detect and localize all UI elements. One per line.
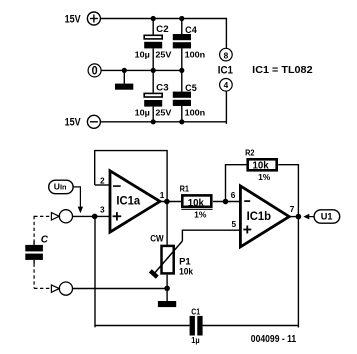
svg-text:15V: 15V	[65, 13, 82, 25]
wire pin 4 to -15V rail	[225, 91, 227, 124]
svg-text:10k: 10k	[179, 267, 194, 278]
wire +15V rail	[100, 18, 226, 20]
svg-text:3: 3	[100, 205, 105, 215]
svg-text:1%: 1%	[194, 210, 207, 220]
svg-text:6: 6	[231, 190, 236, 200]
svg-text:C2: C2	[156, 24, 169, 34]
junction 0/C4C5	[179, 68, 184, 73]
feedback wire IC1a output to pin 2	[95, 151, 167, 202]
terminal 0	[88, 64, 101, 78]
test terminal upper	[59, 210, 72, 223]
wire -15V rail	[100, 121, 226, 123]
test terminal lower	[59, 282, 72, 295]
ground (top)	[115, 70, 133, 89]
resistor R2 10k 1% with wires	[226, 149, 299, 215]
svg-text:U1: U1	[321, 211, 333, 221]
wire down to pin 8	[225, 18, 227, 49]
wire lower terminal to P1 junction	[73, 288, 168, 290]
capacitor C5 (100n)	[173, 70, 205, 121]
output label U1	[314, 210, 340, 223]
bottom rail right of C1	[203, 325, 299, 327]
wire P1 bottom to junction	[166, 275, 168, 289]
wire IC1a output down to P1	[166, 202, 168, 245]
junction -15V/C3	[151, 119, 156, 124]
potentiometer P1 10k	[150, 234, 193, 278]
junction pin 7	[296, 214, 302, 220]
svg-text:10k: 10k	[253, 161, 269, 172]
ground (bottom)	[158, 288, 176, 307]
junction +15V/C4	[179, 16, 184, 21]
svg-text:IC1 = TL082: IC1 = TL082	[252, 65, 313, 76]
wire pin7 down to bottom rail	[297, 217, 299, 328]
junction -15V/C5	[179, 119, 184, 124]
junction pin3 node	[92, 214, 98, 220]
arrow to U1	[303, 214, 309, 220]
op-amp IC1b	[231, 186, 295, 247]
svg-text:10µ: 10µ	[135, 49, 150, 59]
input label UIn	[49, 180, 73, 194]
svg-text:8: 8	[224, 51, 229, 61]
wire pin3 node down to bottom rail	[94, 216, 96, 327]
pin 4 of IC1	[220, 79, 233, 92]
junction 0/C2C3	[151, 68, 156, 73]
svg-text:15V: 15V	[65, 117, 82, 129]
capacitor C2 (10u 25V electrolytic)	[135, 19, 172, 71]
arrow down onto pin3 wire	[78, 207, 83, 214]
svg-text:IC1a: IC1a	[116, 194, 140, 208]
svg-text:10k: 10k	[188, 198, 204, 209]
svg-text:1µ: 1µ	[191, 335, 199, 345]
svg-text:C1: C1	[191, 308, 200, 317]
svg-text:4: 4	[224, 80, 229, 90]
svg-text:IC1: IC1	[218, 64, 233, 76]
junction pin 6 / R2	[223, 199, 229, 205]
terminal -15V	[65, 115, 101, 128]
resistor R1 10k 1%	[180, 185, 213, 220]
wire IC1a output to R1	[160, 201, 182, 203]
bottom rail left of C1	[95, 325, 190, 327]
svg-text:5: 5	[231, 219, 236, 229]
wire 0 rail	[101, 69, 182, 71]
wire pin 7 output	[289, 216, 298, 218]
terminal +15V	[65, 12, 101, 25]
svg-text:25V: 25V	[155, 107, 171, 117]
svg-text:0: 0	[92, 65, 98, 78]
wire P1 wiper to pin 5	[182, 230, 240, 241]
svg-text:2: 2	[100, 175, 105, 185]
junction IC1a output	[164, 199, 170, 205]
svg-text:C4: C4	[185, 25, 197, 35]
wire pin 2	[95, 184, 110, 186]
junction 0/ground	[122, 68, 127, 73]
svg-text:C: C	[41, 235, 49, 246]
svg-text:004099 - 11: 004099 - 11	[251, 334, 297, 345]
svg-text:R1: R1	[180, 185, 190, 194]
svg-text:1: 1	[160, 190, 165, 200]
capacitor C1 1u	[190, 308, 203, 346]
op-amp IC1a	[100, 171, 165, 232]
svg-text:UIn: UIn	[54, 182, 67, 192]
svg-text:100n: 100n	[185, 49, 206, 59]
svg-text:C5: C5	[185, 83, 197, 93]
wire R1 to pin 6	[213, 201, 240, 203]
svg-text:10µ: 10µ	[135, 107, 150, 117]
pin 8 of IC1	[220, 48, 233, 61]
capacitor C under test (dashed)	[25, 213, 59, 293]
svg-text:R2: R2	[245, 149, 255, 158]
svg-text:CW: CW	[150, 234, 164, 244]
capacitor C3 (10u 25V electrolytic)	[135, 70, 172, 121]
wire pin 3	[73, 215, 111, 217]
svg-text:C3: C3	[156, 82, 169, 92]
capacitor C4 (100n)	[173, 19, 205, 71]
junction P1/ground/terminal	[164, 286, 170, 292]
svg-text:100n: 100n	[185, 107, 206, 117]
wire UIn to node 3	[73, 187, 80, 207]
svg-text:1%: 1%	[258, 172, 271, 182]
svg-text:25V: 25V	[155, 49, 171, 59]
junction +15V/C2	[151, 16, 156, 21]
svg-text:IC1b: IC1b	[247, 209, 271, 223]
svg-text:7: 7	[290, 204, 295, 214]
